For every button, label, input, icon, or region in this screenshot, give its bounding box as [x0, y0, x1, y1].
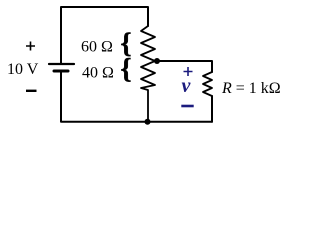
svg-text:v: v: [182, 75, 192, 97]
label: battery plus sign: [26, 42, 35, 51]
wire: battery negative to bottom rail: [61, 71, 212, 122]
wire: top rail from battery to divider chain: [61, 7, 148, 64]
node: tap junction dot between 60 and 40 ohm: [154, 58, 160, 64]
wire: R bottom to rail: [211, 96, 213, 122]
label: load plus sign (navy): [184, 67, 193, 76]
resistor chain 60 ohm + 40 ohm zigzag: [141, 26, 155, 122]
label: load minus sign (navy): [181, 105, 193, 108]
voltage source V1 10 V battery long plate (+): [49, 63, 74, 65]
svg-text:R = 1 kΩ: R = 1 kΩ: [221, 80, 281, 97]
node: bottom rail junction dot: [145, 119, 151, 125]
svg-text:10 V: 10 V: [7, 61, 39, 78]
voltage source V1 10 V battery short plate (-): [54, 70, 68, 73]
label: battery minus sign: [26, 90, 37, 92]
svg-text:{: {: [120, 54, 131, 85]
svg-text:60 Ω: 60 Ω: [81, 39, 113, 56]
wire: tap to load resistor R: [157, 61, 212, 72]
svg-text:40 Ω: 40 Ω: [82, 65, 114, 82]
resistor R 1 kOhm sawtooth: [203, 72, 212, 96]
